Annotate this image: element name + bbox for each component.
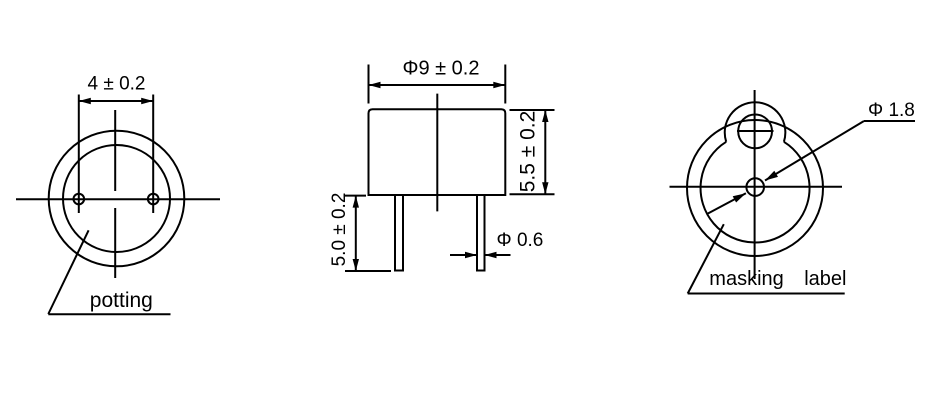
arrowhead phi0.6 right [485,252,497,258]
outer circle [49,131,185,267]
pin right [148,194,159,205]
vent horizontal center line [737,130,774,132]
5.0 dimension line [355,196,357,271]
arrowhead 5.5 top [542,110,548,122]
center hole phi1.8 [746,178,764,196]
svg-text:5.5 ± 0.2: 5.5 ± 0.2 [517,111,540,193]
arrowhead phi9 left [369,82,381,88]
masking leader line [688,224,724,293]
horizontal center line [16,198,220,200]
arrowhead phi0.6 left [465,252,477,258]
phi0.6 arrow shaft left [450,254,477,256]
arrowhead 4dim left [79,98,91,104]
arrowhead 4dim right [141,98,153,104]
svg-text:Φ 1.8: Φ 1.8 [868,100,915,121]
masking underline [688,293,845,295]
phi9 dimension line [369,84,506,86]
arrowhead 5.5 bottom [542,182,548,194]
phi9 extension line left [368,65,370,104]
pin right extension line [152,95,154,214]
phi1.8 leader line [765,121,864,181]
bump arc [725,102,786,142]
horizontal center line [670,186,843,188]
phi9 extension line right [504,65,506,104]
inner circle arc [701,142,810,243]
pin left extension line [78,95,80,214]
5.5 extension line top [510,109,555,111]
main circle [687,120,823,256]
arrowhead phi1.8 [765,171,778,181]
arrowhead phi9 right [493,82,505,88]
svg-text:potting: potting [90,289,153,312]
inner circle [63,145,170,252]
5.0 extension line top [345,195,366,197]
vertical center line [436,94,438,212]
dimension line 4±0.2 [79,100,153,102]
svg-text:masking: masking [709,268,783,290]
vent circle [738,114,772,148]
body outline [369,109,506,195]
svg-text:label: label [804,268,846,290]
vertical center line [114,110,116,191]
svg-text:5.0 ± 0.2: 5.0 ± 0.2 [329,193,350,267]
svg-text:Φ 0.6: Φ 0.6 [497,230,544,251]
arrowhead 5.0 top [353,196,359,208]
phi0.6 arrow shaft right [485,254,511,256]
phi1.8 underline [864,120,915,122]
5.5 extension line bottom [510,193,555,195]
potting leader line [48,230,88,314]
potting underline [48,313,170,315]
arrowhead 5.0 bottom [353,259,359,271]
lead left [395,195,403,271]
pin left [74,194,85,205]
lead right [477,195,485,271]
5.5 dimension line [544,110,546,194]
5.0 extension line bottom [345,270,391,272]
vertical center line [754,90,756,279]
svg-text:Φ9 ± 0.2: Φ9 ± 0.2 [403,58,480,80]
svg-text:4 ± 0.2: 4 ± 0.2 [88,74,146,95]
masking arrow shaft [707,193,746,214]
arrowhead masking [733,193,746,202]
